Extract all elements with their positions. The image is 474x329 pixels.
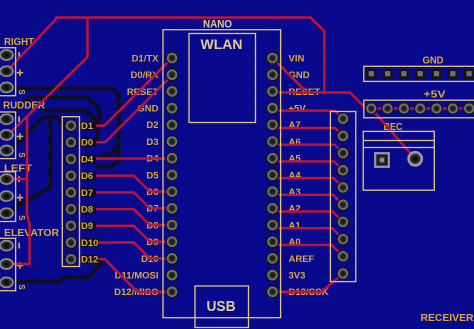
module WLAN outline [189, 34, 256, 123]
svg-text:A3: A3 [289, 187, 301, 198]
svg-text:D8: D8 [81, 205, 93, 216]
wire D10 to nano [99, 243, 173, 259]
pad U1 right D13/SCK [266, 285, 279, 298]
wire D4 to nano [96, 157, 172, 159]
pad GND header pin6 [448, 69, 459, 80]
pad header D12 [64, 253, 77, 266]
pin marks ELEVATOR [17, 243, 27, 291]
svg-text:A0: A0 [289, 237, 301, 248]
pad LEFT pin1 [0, 174, 13, 184]
pad U1 left D2 [165, 118, 178, 131]
pad header D8 [64, 203, 77, 216]
wire A2 to right header [273, 208, 344, 222]
svg-text:D6: D6 [81, 171, 93, 182]
pad U1 left D0/RX [165, 68, 178, 81]
pad U1 left D9 [165, 235, 178, 248]
pad RUDDER pin3 [0, 146, 13, 156]
pad GND header pin3 [399, 69, 410, 80]
header +5V outline [364, 100, 474, 118]
pad ELEVATOR pin2 [0, 259, 13, 269]
pad header J2 pin8 [336, 233, 349, 246]
pad LEFT pin3 [0, 208, 13, 218]
pad header D6 [64, 169, 77, 182]
connector LEFT outline [0, 172, 16, 222]
header J2 outline (A pins) [330, 112, 355, 282]
connector ELEVATOR outline [0, 238, 16, 290]
wire D1 to nano [96, 58, 172, 126]
svg-text:S: S [17, 284, 26, 290]
svg-text:USB: USB [207, 298, 236, 315]
module U1 NANO outline [163, 30, 281, 318]
wire A5 to right header [273, 158, 344, 170]
svg-text:+5V: +5V [424, 89, 446, 101]
pad GND header pin5 [431, 69, 442, 80]
wire bottom RUDDER-I arch [7, 98, 100, 125]
wire A3 to right header [273, 192, 344, 205]
pad header J2 pin2 [336, 129, 349, 142]
wire stub LEFT pin1 [7, 178, 27, 180]
label plate D4 [80, 155, 96, 164]
wire 5V to BEC [371, 109, 415, 159]
label plate D12 [80, 255, 100, 264]
svg-text:A1: A1 [289, 220, 302, 231]
pad U1 left D5 [165, 168, 178, 181]
pin marks LEFT [17, 176, 27, 221]
svg-text:D2: D2 [146, 120, 158, 131]
svg-text:S: S [17, 215, 26, 221]
svg-text:D10: D10 [81, 238, 98, 249]
svg-text:D5: D5 [146, 170, 159, 181]
svg-text:NANO: NANO [203, 18, 232, 30]
pad +5V header pin5 [430, 102, 443, 115]
pad header J2 pin6 [336, 198, 349, 211]
wire bottom to LEFT-S [7, 117, 51, 212]
pad U1 left D12/MISO [165, 285, 178, 298]
label plate D0 [80, 138, 96, 147]
pad +5V header pin3 [398, 102, 411, 115]
pad U1 right RESET [266, 85, 279, 98]
svg-text:WLAN: WLAN [201, 36, 243, 52]
pad header J2 pin3 [336, 147, 349, 160]
svg-text:A4: A4 [289, 170, 302, 181]
pad header J2 pin9 [336, 250, 349, 263]
pin marks RUDDER [17, 116, 27, 158]
wire D7 to nano [96, 192, 172, 208]
pad header J2 pin4 [336, 164, 349, 177]
label plate D1 [80, 121, 96, 130]
svg-text:D3: D3 [146, 137, 158, 148]
svg-text:+5V: +5V [289, 104, 307, 115]
pad LEFT pin2 [0, 191, 13, 201]
header J1 outline (D pins) [62, 117, 79, 267]
pad U1 right A4 [266, 168, 279, 181]
BEC inner lines [363, 141, 434, 148]
wire bottom ELEVATOR-S to D12 [7, 260, 102, 282]
pad header J2 pin5 [336, 181, 349, 194]
pad +5V header pin7 [463, 102, 474, 115]
pad ELEVATOR pin3 [0, 277, 13, 287]
wire A0 to right header [273, 242, 344, 257]
pad U1 right A0 [266, 235, 279, 248]
wire bottom arch to D0 [42, 111, 98, 142]
connector RIGHT outline [0, 48, 16, 96]
pad RUDDER pin1 [0, 114, 13, 124]
wire D9 to nano [96, 226, 172, 242]
pad U1 left GND [165, 101, 178, 114]
pad +5V header pin1 [365, 102, 378, 115]
pad BEC 1 (square) [375, 153, 389, 167]
pad ELEVATOR pin1 [0, 241, 13, 251]
wire +5V rail top [55, 18, 324, 93]
pad header D7 [64, 186, 77, 199]
svg-text:D7: D7 [81, 188, 93, 199]
header GND outline [364, 66, 474, 81]
connector RUDDER outline [0, 112, 16, 159]
pad RUDDER pin2 [0, 130, 13, 140]
pin marks RIGHT [17, 52, 27, 95]
pad header J2 pin1 [336, 112, 349, 125]
pad +5V header pin6 [446, 102, 459, 115]
wire D0 to nano [96, 75, 172, 142]
label plate D6 [80, 171, 96, 180]
pad header D1 [64, 119, 77, 132]
wire D12 to nano [99, 259, 173, 292]
svg-text:RECEIVER: RECEIVER [421, 312, 474, 324]
pad U1 right A5 [266, 152, 279, 165]
pad header D10 [64, 236, 77, 249]
wire bottom branch to D6 area [96, 146, 119, 167]
pad U1 left RESET [165, 85, 178, 98]
module BEC outline [363, 131, 434, 190]
pad GND header pin2 [382, 69, 393, 80]
pad U1 right +5V [266, 101, 279, 114]
svg-text:A7: A7 [289, 120, 301, 131]
svg-text:VIN: VIN [289, 53, 305, 64]
wire vertical to ELEVATOR-plus [7, 117, 30, 265]
svg-text:D0: D0 [81, 138, 93, 149]
pad U1 right GND [266, 68, 279, 81]
label plate D9 [80, 221, 96, 230]
pad U1 right VIN [266, 51, 279, 64]
pad U1 left D1/TX [165, 51, 178, 64]
pad U1 right A7 [266, 118, 279, 131]
wire +5V bus [371, 107, 474, 109]
pad U1 left D6 [165, 185, 178, 198]
pad header D4 [64, 152, 77, 165]
pad U1 right AREF [266, 252, 279, 265]
wire rail to RUDDER-plus [7, 18, 88, 137]
svg-text:ELEVATOR: ELEVATOR [4, 227, 59, 239]
wire D8 to nano [96, 209, 172, 225]
wire RESET to 5V header [273, 93, 372, 109]
pad RIGHT pin1 [0, 50, 13, 60]
svg-text:D1: D1 [81, 121, 94, 132]
wire D6 to nano [96, 176, 172, 192]
svg-text:S: S [17, 152, 26, 158]
wire A6 to right header [273, 142, 344, 154]
wire bottom RUDDER-S to D1 [7, 117, 71, 153]
pad +5V header pin4 [414, 102, 427, 115]
wire A7 to right header [273, 125, 344, 136]
pad header J2 pin10 [336, 267, 349, 280]
pad U1 left D8 [165, 218, 178, 231]
pad U1 left D4 [165, 152, 178, 165]
pad RIGHT pin2 [0, 66, 13, 76]
wire RIGHT-plus to rail [7, 19, 57, 72]
connector USB outline [195, 286, 249, 328]
svg-text:GND: GND [423, 55, 444, 67]
pad U1 left D7 [165, 202, 178, 215]
svg-text:D4: D4 [81, 154, 94, 165]
pad U1 right A1 [266, 218, 279, 231]
pad BEC 2 (round) [409, 152, 422, 165]
svg-text:D12: D12 [81, 255, 98, 266]
pad header D9 [64, 219, 77, 232]
pad U1 left D3 [165, 135, 178, 148]
label plate D8 [80, 205, 96, 214]
svg-text:D9: D9 [81, 221, 93, 232]
pad GND header pin1 [366, 69, 377, 80]
wire +5V to right header [273, 108, 344, 119]
pad U1 right 3V3 [266, 268, 279, 281]
pad U1 right A6 [266, 135, 279, 148]
pad +5V header pin2 [381, 102, 394, 115]
pad RIGHT pin3 [0, 82, 13, 92]
wire A4 to right header [273, 175, 344, 188]
svg-text:S: S [17, 89, 26, 95]
svg-text:LEFT: LEFT [4, 163, 33, 175]
wire bottom RIGHT-S to D4 area [7, 89, 119, 156]
svg-text:A5: A5 [289, 154, 302, 165]
svg-text:3V3: 3V3 [289, 271, 306, 282]
wire D13/SCK [273, 274, 344, 292]
svg-text:D1/TX: D1/TX [132, 53, 160, 64]
wire A1 to right header [273, 225, 344, 239]
pad header J2 pin7 [336, 215, 349, 228]
pad U1 left D11/MOSI [165, 268, 178, 281]
label plate D10 [80, 238, 100, 247]
svg-text:A6: A6 [289, 137, 301, 148]
pad GND header pin4 [415, 69, 426, 80]
wire VIN diagonal [273, 58, 308, 93]
pad U1 right A3 [266, 185, 279, 198]
label plate D7 [80, 188, 96, 197]
pad header D0 [64, 136, 77, 149]
pad U1 left D10 [165, 252, 178, 265]
svg-text:A2: A2 [289, 204, 301, 215]
pad U1 right A2 [266, 202, 279, 215]
pad GND header pin7 [464, 69, 474, 80]
svg-text:AREF: AREF [289, 254, 315, 265]
